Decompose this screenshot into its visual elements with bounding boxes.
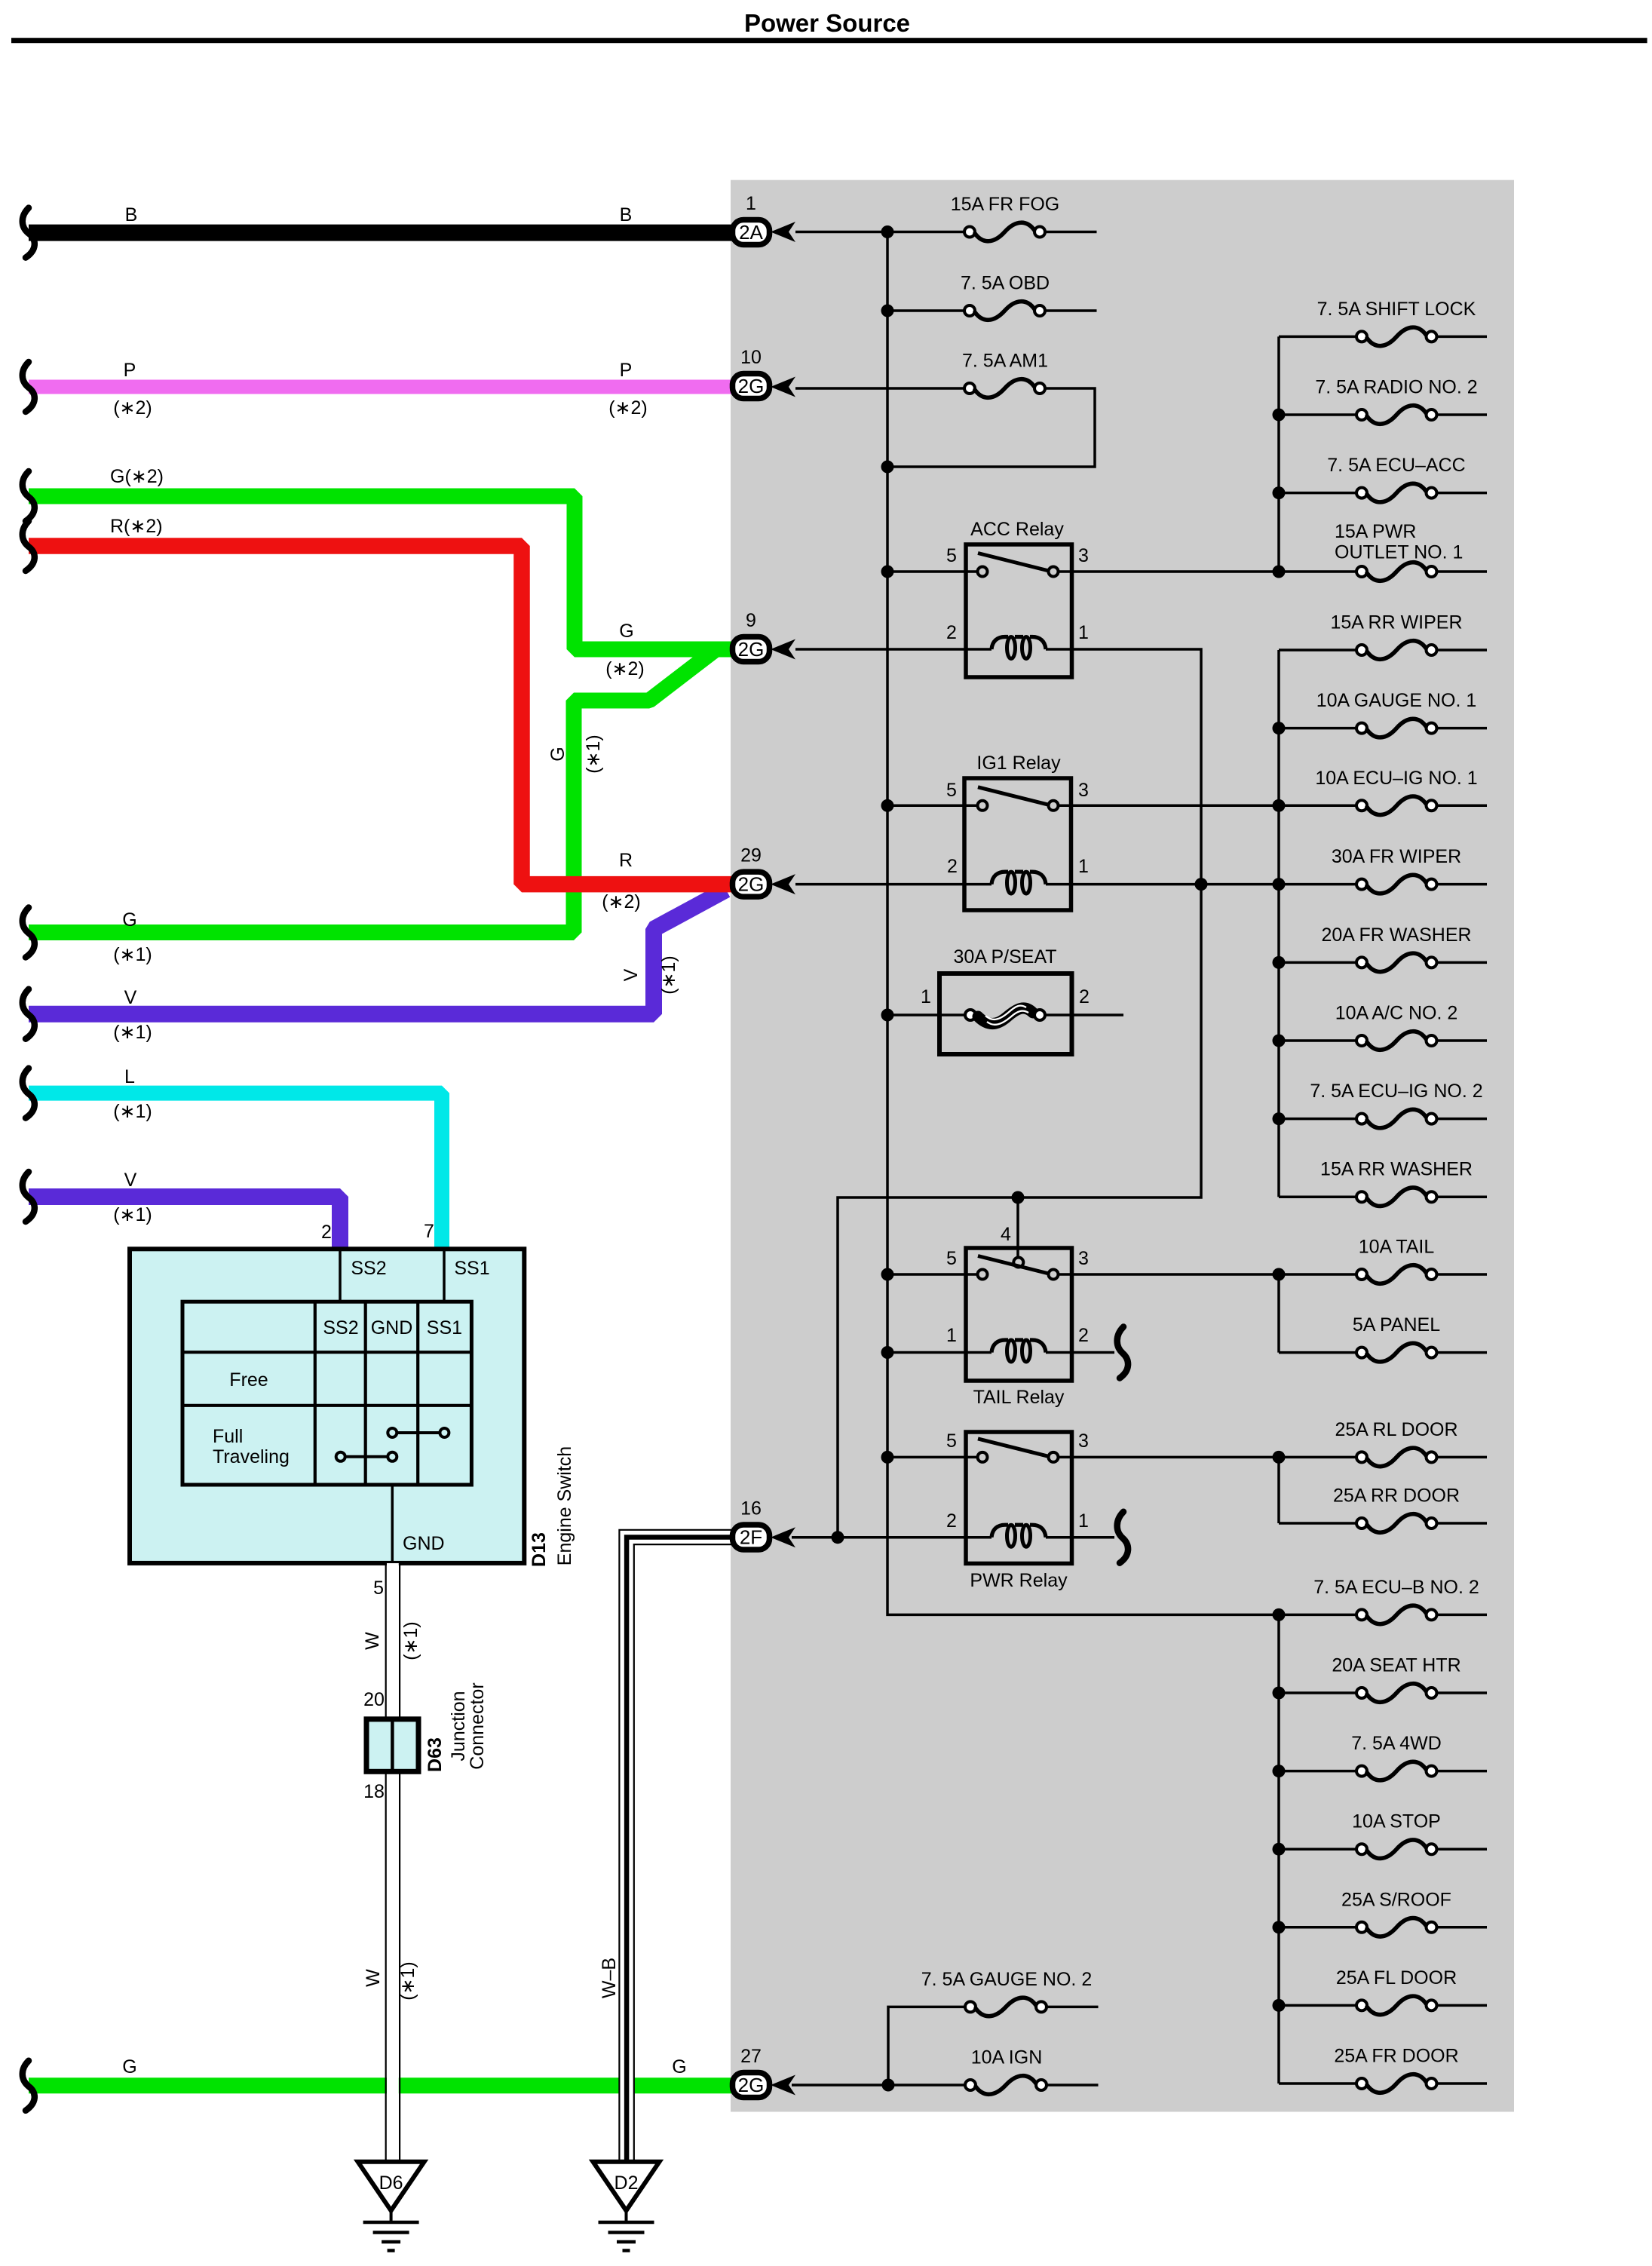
- svg-text:G: G: [619, 621, 633, 642]
- PWR relay coil pin 1 stub: [1046, 1536, 1114, 1539]
- TAIL relay coil pin 1 lead: [887, 1351, 992, 1354]
- wire B battery feed to connector 2A: [23, 204, 748, 258]
- ECU-B fuse group bus: [1277, 1614, 1280, 2084]
- svg-text:G: G: [122, 909, 136, 931]
- svg-text:G: G: [547, 747, 569, 761]
- IG1 relay coil pin 1 to FR WIPER row: [1046, 883, 1356, 886]
- svg-text:7. 5A OBD: 7. 5A OBD: [961, 273, 1050, 294]
- relay ACC Relay: [946, 519, 1089, 677]
- connector 2G pin 10: [733, 347, 770, 399]
- svg-text:7: 7: [424, 1221, 434, 1242]
- svg-text:20A SEAT HTR: 20A SEAT HTR: [1332, 1655, 1460, 1676]
- connector 2G pin 29: [733, 845, 770, 897]
- junction connector D63: [363, 1682, 488, 1802]
- svg-text:SS2: SS2: [351, 1258, 386, 1279]
- svg-text:(∗2): (∗2): [113, 397, 152, 419]
- fusible link 30A P/SEAT: [887, 946, 1123, 1054]
- svg-text:G: G: [122, 2056, 136, 2077]
- svg-text:18: 18: [363, 1781, 385, 1802]
- svg-text:30A P/SEAT: 30A P/SEAT: [953, 946, 1056, 967]
- fuse 7.5A AM1: [962, 351, 1048, 398]
- svg-text:W–B: W–B: [599, 1958, 620, 1998]
- svg-text:D6: D6: [379, 2172, 403, 2194]
- svg-text:10A TAIL: 10A TAIL: [1359, 1237, 1435, 1258]
- contact GND-SS1: [392, 1431, 444, 1434]
- ACC relay contact pin 3 lead: [1059, 570, 1280, 573]
- fuse 10A GAUGE NO. 1: [1279, 690, 1487, 737]
- svg-text:2G: 2G: [738, 2074, 765, 2096]
- svg-text:R(∗2): R(∗2): [110, 516, 163, 537]
- svg-text:B: B: [125, 204, 138, 225]
- wire P (*2) to connector 10/2G: [23, 360, 748, 419]
- connector 2F pin 16: [733, 1498, 770, 1550]
- svg-text:7. 5A ECU–B NO. 2: 7. 5A ECU–B NO. 2: [1313, 1577, 1479, 1598]
- svg-text:10A ECU–IG NO. 1: 10A ECU–IG NO. 1: [1315, 768, 1477, 789]
- arrow into 10/2G: [771, 377, 795, 397]
- svg-text:Junction: Junction: [448, 1691, 469, 1761]
- svg-text:SS1: SS1: [454, 1258, 489, 1279]
- svg-text:1: 1: [1078, 856, 1089, 877]
- svg-text:2F: 2F: [740, 1526, 762, 1549]
- svg-text:15A FR FOG: 15A FR FOG: [951, 194, 1059, 215]
- svg-text:(∗1): (∗1): [113, 1204, 152, 1225]
- AM1 fuse output loop to bus: [887, 388, 1095, 467]
- fuse 25A RR DOOR: [1279, 1486, 1487, 1533]
- svg-text:10A STOP: 10A STOP: [1352, 1811, 1441, 1832]
- wire 16/2F to PWR relay coil pin 2: [792, 1536, 992, 1539]
- relay IG1 Relay: [946, 753, 1089, 910]
- svg-text:7. 5A SHIFT LOCK: 7. 5A SHIFT LOCK: [1317, 299, 1476, 320]
- svg-text:3: 3: [1078, 780, 1089, 801]
- arrow into 29/2G: [771, 874, 795, 894]
- svg-text:2A: 2A: [739, 221, 763, 244]
- IG1 relay contact pin 5 lead: [887, 805, 978, 808]
- junction dots feed line: [832, 878, 1208, 2091]
- svg-text:(∗1): (∗1): [113, 944, 152, 965]
- svg-text:7. 5A ECU–IG NO. 2: 7. 5A ECU–IG NO. 2: [1310, 1081, 1482, 1102]
- ACC relay coil pin 1 riser to feed line: [838, 649, 1201, 1538]
- branch to GAUGE NO.2 fuse: [888, 2007, 965, 2085]
- fuse 10A STOP: [1279, 1811, 1487, 1859]
- svg-text:D2: D2: [615, 2172, 639, 2194]
- svg-text:IG1 Relay: IG1 Relay: [976, 753, 1061, 774]
- SS1 internal lead: [443, 1251, 446, 1302]
- svg-text:7. 5A GAUGE NO. 2: 7. 5A GAUGE NO. 2: [921, 1969, 1092, 1990]
- svg-text:30A FR WIPER: 30A FR WIPER: [1332, 846, 1461, 867]
- title rule: [11, 38, 1647, 43]
- svg-text:SS2: SS2: [323, 1317, 358, 1338]
- connector 2G pin 9: [733, 610, 770, 662]
- svg-text:20A FR WASHER: 20A FR WASHER: [1321, 924, 1471, 946]
- break symbol PWR coil stub: [1117, 1512, 1128, 1563]
- svg-text:Power Source: Power Source: [744, 9, 910, 37]
- svg-text:5: 5: [946, 1430, 957, 1452]
- svg-text:TAIL Relay: TAIL Relay: [973, 1387, 1065, 1408]
- svg-text:2G: 2G: [738, 375, 765, 397]
- svg-text:V: V: [124, 1170, 137, 1191]
- svg-text:2: 2: [946, 622, 957, 643]
- fuse 7.5A GAUGE NO. 2: [921, 1969, 1099, 2016]
- TAIL relay coil pin 2 stub: [1046, 1351, 1114, 1354]
- svg-text:(∗1): (∗1): [113, 1022, 152, 1043]
- SS2 internal lead: [339, 1251, 342, 1302]
- fuse 10A IGN: [965, 2047, 1099, 2095]
- svg-text:9: 9: [746, 610, 756, 631]
- PWR relay contact pin 5 lead: [887, 1456, 978, 1459]
- contact SS2-GND: [341, 1455, 393, 1458]
- svg-text:W: W: [362, 1632, 383, 1650]
- svg-text:2: 2: [1079, 986, 1090, 1007]
- junction dots main bus: [881, 225, 894, 1464]
- relay TAIL Relay: [946, 1224, 1089, 1408]
- svg-text:Free: Free: [229, 1369, 268, 1391]
- svg-text:10A IGN: 10A IGN: [971, 2047, 1043, 2068]
- svg-text:(∗1): (∗1): [113, 1101, 152, 1122]
- fuse 20A SEAT HTR: [1279, 1655, 1487, 1703]
- svg-text:25A RR DOOR: 25A RR DOOR: [1333, 1486, 1460, 1507]
- IG1 relay contact pin 3 lead: [1059, 805, 1280, 808]
- svg-text:20: 20: [363, 1689, 385, 1710]
- fuse 10A A/C NO. 2: [1279, 1003, 1487, 1050]
- svg-text:Engine Switch: Engine Switch: [554, 1446, 575, 1565]
- PWR relay contact pin 3 lead: [1059, 1456, 1280, 1459]
- svg-text:15A RR WIPER: 15A RR WIPER: [1330, 612, 1462, 633]
- wire W-B connector 2F to ground D2: [599, 1530, 748, 2162]
- svg-text:2: 2: [947, 856, 958, 877]
- wire W engine switch pin 5 to ground D6: [362, 1563, 421, 2162]
- fuse 15A PWR OUTLET NO. 1: [1279, 521, 1487, 581]
- svg-text:3: 3: [1078, 545, 1089, 566]
- svg-text:7. 5A ECU–ACC: 7. 5A ECU–ACC: [1327, 455, 1465, 476]
- svg-text:1: 1: [1078, 622, 1089, 643]
- switch state table: [182, 1302, 471, 1485]
- svg-text:R: R: [619, 850, 633, 871]
- svg-text:V: V: [621, 968, 642, 981]
- fuse 20A FR WASHER: [1279, 924, 1487, 972]
- svg-text:1: 1: [921, 986, 931, 1007]
- svg-text:1: 1: [1078, 1510, 1089, 1532]
- arrow into 27/2G: [771, 2075, 795, 2096]
- junction dots right bus: [1273, 409, 1286, 2012]
- svg-text:4: 4: [1001, 1224, 1011, 1245]
- svg-text:7. 5A 4WD: 7. 5A 4WD: [1351, 1733, 1442, 1754]
- TAIL relay contact pin 5 lead: [887, 1273, 978, 1276]
- connector 2G pin 27: [733, 2046, 770, 2098]
- ground D2: [593, 2162, 660, 2251]
- svg-text:16: 16: [740, 1498, 762, 1519]
- svg-text:L: L: [124, 1066, 135, 1087]
- svg-text:15A PWR: 15A PWR: [1335, 521, 1416, 542]
- fuse 25A FL DOOR: [1279, 1967, 1487, 2015]
- svg-text:3: 3: [1078, 1248, 1089, 1269]
- fuse 15A RR WIPER: [1279, 612, 1487, 660]
- svg-text:25A FR DOOR: 25A FR DOOR: [1334, 2046, 1458, 2067]
- main bus: [887, 232, 1279, 1615]
- svg-text:25A RL DOOR: 25A RL DOOR: [1335, 1419, 1457, 1440]
- wire 10/2G to AM1 fuse: [795, 387, 965, 390]
- TAIL fuse group bus: [1277, 1274, 1280, 1353]
- wire G to connector 27/2G: [23, 2056, 748, 2111]
- fuse 7. 5A 4WD: [1279, 1733, 1487, 1780]
- fuse 7. 5A ECU–IG NO. 2: [1279, 1081, 1487, 1128]
- svg-text:W: W: [363, 1969, 384, 1987]
- ACC fuse group bus: [1277, 336, 1280, 572]
- svg-text:GND: GND: [403, 1533, 445, 1554]
- svg-text:1: 1: [946, 1325, 957, 1346]
- fuse 7. 5A RADIO NO. 2: [1279, 377, 1487, 425]
- svg-text:1: 1: [746, 193, 756, 214]
- svg-text:PWR Relay: PWR Relay: [970, 1570, 1068, 1591]
- svg-text:27: 27: [740, 2046, 762, 2067]
- svg-text:(∗1): (∗1): [583, 734, 604, 774]
- svg-text:5: 5: [946, 1248, 957, 1269]
- svg-text:OUTLET NO. 1: OUTLET NO. 1: [1335, 542, 1463, 563]
- fuse 7. 5A SHIFT LOCK: [1279, 299, 1487, 346]
- svg-text:D13: D13: [529, 1532, 550, 1567]
- svg-text:2: 2: [1078, 1325, 1089, 1346]
- svg-text:5A PANEL: 5A PANEL: [1353, 1314, 1440, 1335]
- svg-text:25A S/ROOF: 25A S/ROOF: [1341, 1889, 1451, 1910]
- fuse 5A PANEL: [1279, 1314, 1487, 1362]
- fuse 7. 5A ECU–ACC: [1279, 455, 1487, 502]
- svg-text:Full: Full: [213, 1426, 243, 1447]
- fuse 30A FR WIPER: [1332, 846, 1487, 894]
- svg-text:3: 3: [1078, 1430, 1089, 1452]
- svg-text:2G: 2G: [738, 873, 765, 896]
- wire V (*1) joining connector 29/2G: [23, 890, 726, 1043]
- IG1 fuse group bus: [1277, 650, 1280, 1197]
- svg-text:(∗1): (∗1): [658, 955, 679, 995]
- engine switch D13: [130, 1221, 575, 1567]
- TAIL relay contact pin 3 lead: [1059, 1273, 1280, 1276]
- svg-text:(∗2): (∗2): [608, 397, 648, 419]
- svg-text:2: 2: [321, 1222, 332, 1243]
- wire G (*2) to connector 9/2G: [23, 466, 748, 679]
- svg-text:V: V: [124, 987, 137, 1008]
- svg-text:7. 5A AM1: 7. 5A AM1: [962, 351, 1048, 372]
- svg-text:2: 2: [946, 1510, 957, 1532]
- wire 27/2G to IGN fuse: [792, 2084, 966, 2087]
- svg-text:G(∗2): G(∗2): [110, 466, 164, 487]
- arrow into 16/2F: [771, 1527, 795, 1547]
- svg-text:P: P: [124, 360, 136, 381]
- svg-text:ACC Relay: ACC Relay: [970, 519, 1064, 540]
- relay PWR Relay: [946, 1430, 1089, 1591]
- svg-text:10: 10: [740, 347, 762, 368]
- svg-text:25A FL DOOR: 25A FL DOOR: [1336, 1967, 1457, 1988]
- svg-text:B: B: [620, 204, 633, 225]
- wire G (*1) joining connector 9/2G: [23, 651, 714, 965]
- svg-text:29: 29: [740, 845, 762, 866]
- fuse 25A FR DOOR: [1279, 2046, 1487, 2093]
- fuse 25A S/ROOF: [1279, 1889, 1487, 1936]
- wire V (*1) to engine switch SS2 pin 2: [23, 1170, 340, 1250]
- svg-text:(∗1): (∗1): [397, 1961, 418, 2001]
- arrow into 2A: [771, 222, 795, 242]
- svg-text:2G: 2G: [738, 638, 765, 661]
- fuse/relay panel background: [731, 180, 1514, 2112]
- fuse 10A TAIL: [1279, 1237, 1487, 1284]
- svg-text:Connector: Connector: [467, 1682, 488, 1769]
- svg-text:D63: D63: [424, 1737, 446, 1772]
- svg-text:(∗2): (∗2): [605, 658, 645, 679]
- svg-text:5: 5: [946, 780, 957, 801]
- fuse 7. 5A ECU–B NO. 2: [1279, 1577, 1487, 1624]
- svg-text:P: P: [620, 360, 633, 381]
- svg-text:SS1: SS1: [427, 1317, 462, 1338]
- svg-text:Traveling: Traveling: [213, 1446, 290, 1467]
- break symbol TAIL coil stub: [1117, 1327, 1128, 1378]
- fuse 25A RL DOOR: [1279, 1419, 1487, 1467]
- svg-text:(∗1): (∗1): [400, 1621, 421, 1660]
- GND lead: [391, 1485, 394, 1561]
- wire 9/2G to ACC relay coil pin 2: [795, 648, 992, 651]
- svg-text:7. 5A RADIO NO. 2: 7. 5A RADIO NO. 2: [1315, 377, 1477, 398]
- wire 2A to main bus: [795, 231, 890, 234]
- svg-text:G: G: [672, 2056, 686, 2077]
- TAIL relay pin 4 lead: [1016, 1197, 1019, 1258]
- arrow into 9/2G: [771, 639, 795, 660]
- wire 29/2G to IG1 relay coil pin 2: [795, 883, 992, 886]
- svg-text:5: 5: [373, 1578, 384, 1599]
- fuse 7.5A OBD: [887, 273, 1097, 320]
- svg-text:10A GAUGE NO. 1: 10A GAUGE NO. 1: [1316, 690, 1477, 711]
- svg-text:(∗2): (∗2): [602, 891, 641, 912]
- svg-text:15A RR WASHER: 15A RR WASHER: [1320, 1159, 1473, 1180]
- fuse 15A RR WASHER: [1279, 1159, 1487, 1207]
- wire break symbol: [23, 208, 35, 258]
- fuse 10A ECU–IG NO. 1: [1279, 768, 1487, 815]
- PWR fuse group bus: [1277, 1457, 1280, 1523]
- wire L (*1) to engine switch SS1 pin 7: [23, 1066, 442, 1250]
- svg-text:GND: GND: [371, 1317, 413, 1338]
- svg-text:10A A/C NO. 2: 10A A/C NO. 2: [1335, 1003, 1458, 1024]
- fuse 15A FR FOG: [887, 194, 1097, 241]
- svg-text:5: 5: [946, 545, 957, 566]
- wire R (*2) to connector 29/2G: [23, 516, 748, 912]
- connector 2A pin 1: [733, 193, 770, 245]
- ACC relay contact pin 5 lead: [887, 570, 978, 573]
- ground D6: [358, 2162, 424, 2251]
